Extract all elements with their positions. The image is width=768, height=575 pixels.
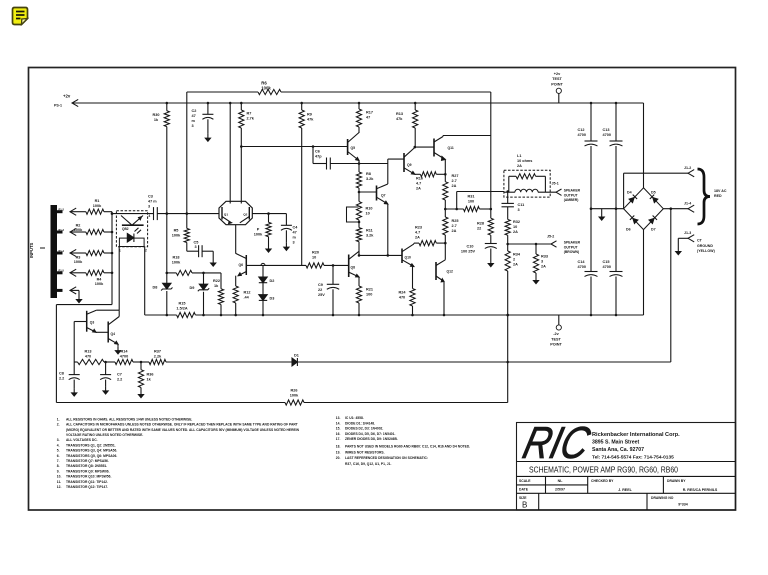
svg-text:14.: 14. bbox=[336, 421, 341, 425]
svg-text:R20: R20 bbox=[312, 251, 319, 255]
svg-text:470: 470 bbox=[85, 355, 91, 359]
transistor Q9 bbox=[403, 153, 405, 172]
test point +2v bbox=[556, 88, 561, 93]
wire R34 down to bottom return bbox=[507, 271, 509, 403]
ground under C10 bbox=[490, 259, 492, 264]
svg-text:2: 2 bbox=[513, 258, 515, 262]
capacitor C12 4700 bbox=[590, 102, 593, 105]
pin J5-1 speaker output amber bbox=[556, 189, 562, 192]
capacitor C5 bbox=[186, 243, 188, 252]
note icon bbox=[13, 8, 28, 25]
capacitor C13 4700 bbox=[615, 102, 618, 105]
svg-text:SCHEMATIC, POWER AMP RG90, RG6: SCHEMATIC, POWER AMP RG90, RG60, RB60 bbox=[529, 465, 678, 474]
svg-text:3: 3 bbox=[293, 241, 295, 245]
svg-text:ALL CAPACITORS IN MICROFARADS: ALL CAPACITORS IN MICROFARADS UNLESS NOT… bbox=[66, 423, 298, 427]
pin J5-2 speaker output brown bbox=[507, 235, 509, 251]
svg-text:C6: C6 bbox=[315, 150, 320, 154]
test point -2v bbox=[558, 315, 560, 325]
wire Q10 emitter down bbox=[413, 266, 414, 268]
svg-text:100k: 100k bbox=[95, 282, 104, 286]
svg-text:C2: C2 bbox=[192, 109, 197, 113]
resistor R10 10 with trimmer loop bbox=[356, 202, 361, 221]
wire Q5 base bbox=[241, 146, 347, 148]
capacitor C14 4700 bbox=[590, 209, 592, 272]
resistor R1 100k input bbox=[70, 208, 76, 215]
svg-text:20.: 20. bbox=[336, 456, 341, 460]
svg-text:R33: R33 bbox=[541, 255, 548, 259]
svg-text:16.: 16. bbox=[336, 432, 341, 436]
optocoupler phototransistor bbox=[121, 216, 132, 226]
wire bridge to bottom return bbox=[670, 209, 672, 362]
svg-text:TRANSISTOR Q12: TIP147.: TRANSISTOR Q12: TIP147. bbox=[66, 485, 108, 489]
svg-text:C3: C3 bbox=[148, 195, 153, 199]
svg-text:100: 100 bbox=[468, 200, 474, 204]
svg-text:C10: C10 bbox=[467, 245, 474, 249]
transistor Q6 bbox=[245, 255, 247, 275]
connector P1 input bracket bbox=[51, 205, 58, 298]
svg-text:18V AC: 18V AC bbox=[714, 189, 727, 193]
svg-text:D2: D2 bbox=[270, 279, 275, 283]
wire feedback column bbox=[166, 127, 168, 273]
resistor R11 3.2k bbox=[356, 228, 361, 242]
svg-text:POINT: POINT bbox=[550, 343, 562, 347]
pin PS-1 arrow bbox=[72, 99, 78, 106]
wire Q11 collector to rail bbox=[442, 136, 444, 137]
svg-text:2A: 2A bbox=[416, 187, 421, 191]
diode D7 bbox=[648, 215, 657, 224]
svg-text:SPEAKER: SPEAKER bbox=[564, 241, 581, 245]
svg-text:C9: C9 bbox=[318, 283, 323, 287]
resistor R31 100 bbox=[445, 208, 463, 210]
wire Q3 base bbox=[74, 321, 87, 323]
resistor R14 4700 bbox=[115, 359, 133, 364]
bridge rectifier D4 D5 D6 D7 bbox=[624, 188, 664, 230]
svg-text:1.: 1. bbox=[57, 417, 60, 421]
transistor Q8 bbox=[348, 255, 350, 278]
wire opto pin2 down to neg bus bbox=[144, 247, 146, 316]
resistor R27 2.7 2A bbox=[443, 182, 448, 200]
wire rail A left drop bbox=[186, 92, 188, 228]
wire Q7 collector up bbox=[387, 164, 389, 185]
svg-text:R2: R2 bbox=[76, 224, 81, 228]
svg-text:22: 22 bbox=[477, 227, 481, 231]
svg-text:OUTPUT: OUTPUT bbox=[564, 193, 579, 197]
svg-text:R16: R16 bbox=[416, 177, 423, 181]
svg-text:47: 47 bbox=[366, 116, 370, 120]
wire output node bbox=[444, 200, 446, 217]
resistor R33 3 2A bbox=[535, 244, 537, 254]
svg-text:10: 10 bbox=[366, 212, 370, 216]
svg-text:R32: R32 bbox=[513, 220, 520, 224]
svg-text:3: 3 bbox=[192, 124, 194, 128]
svg-text:R25: R25 bbox=[452, 219, 459, 223]
svg-text:DIODE D1: 1N4148.: DIODE D1: 1N4148. bbox=[345, 421, 375, 425]
resistor R22 1k bbox=[220, 273, 222, 289]
svg-text:R23: R23 bbox=[415, 226, 422, 230]
svg-text:9.: 9. bbox=[57, 469, 60, 473]
svg-text:2A: 2A bbox=[415, 236, 420, 240]
svg-text:3.2k: 3.2k bbox=[366, 234, 374, 238]
svg-text:POINT: POINT bbox=[551, 82, 563, 86]
svg-text:R24: R24 bbox=[399, 291, 407, 295]
resistor R4 100k input bbox=[70, 269, 76, 276]
transistor Q11 bbox=[433, 139, 435, 157]
svg-text:Q10: Q10 bbox=[405, 256, 412, 260]
svg-text:R13: R13 bbox=[85, 350, 92, 354]
wire negative bus bbox=[145, 314, 177, 316]
svg-text:47 m: 47 m bbox=[148, 200, 157, 204]
svg-text:100k: 100k bbox=[172, 261, 181, 265]
svg-text:J5-2: J5-2 bbox=[547, 235, 554, 239]
diode D5 bbox=[650, 194, 659, 203]
svg-text:R17: R17 bbox=[366, 111, 373, 115]
svg-text:2.7k: 2.7k bbox=[247, 117, 255, 121]
ground under Q4 emitter bbox=[117, 344, 119, 346]
wire rail B drop to bridge bbox=[643, 103, 645, 188]
svg-text:4700: 4700 bbox=[578, 133, 586, 137]
transistor Q7 bbox=[376, 186, 378, 201]
svg-text:R37, C16, D9, Q12, U1, P1, J1.: R37, C16, D9, Q12, U1, P1, J1. bbox=[345, 462, 391, 466]
wire Q12 collector down bbox=[443, 282, 445, 316]
svg-text:47k: 47k bbox=[307, 118, 314, 122]
ground after C5 bbox=[202, 250, 213, 252]
resistor R12 .44 bbox=[233, 286, 238, 303]
svg-text:100k: 100k bbox=[290, 394, 299, 398]
resistor R26 100k bbox=[285, 400, 304, 405]
svg-text:6.: 6. bbox=[57, 454, 60, 458]
svg-text:P1-2: P1-2 bbox=[59, 208, 65, 212]
svg-text:100: 100 bbox=[366, 293, 372, 297]
svg-text:Q8: Q8 bbox=[351, 266, 356, 270]
svg-text:4700: 4700 bbox=[603, 133, 611, 137]
svg-text:DRAWN BY: DRAWN BY bbox=[667, 479, 686, 483]
svg-text:DRAWING NO: DRAWING NO bbox=[651, 496, 674, 500]
svg-text:R7: R7 bbox=[247, 112, 252, 116]
svg-text:-2v: -2v bbox=[553, 332, 559, 336]
svg-text:R10: R10 bbox=[366, 207, 373, 211]
svg-text:3: 3 bbox=[541, 260, 543, 264]
input ground pin bbox=[70, 287, 76, 294]
wire Q8 emitter bbox=[358, 277, 360, 286]
svg-text:9*334: 9*334 bbox=[678, 503, 687, 507]
zener diode D9 bbox=[203, 273, 205, 284]
inductor L1 coil bbox=[504, 191, 515, 193]
resistor R34 2 2A bbox=[505, 251, 510, 271]
svg-text:D9: D9 bbox=[190, 286, 195, 290]
svg-text:P1-3: P1-3 bbox=[59, 228, 65, 232]
wire input bus bbox=[111, 212, 113, 305]
capacitor C10 100 25V bbox=[490, 235, 492, 243]
zener diode D8 bbox=[166, 273, 168, 283]
svg-text:100 25V: 100 25V bbox=[461, 250, 476, 254]
wire output to L1 bbox=[456, 192, 458, 210]
svg-text:2A: 2A bbox=[541, 265, 546, 269]
svg-text:R1: R1 bbox=[95, 199, 100, 203]
wire Q10 base node bbox=[359, 254, 402, 256]
svg-text:47: 47 bbox=[293, 231, 297, 235]
optocoupler U2 dashed box bbox=[116, 211, 147, 247]
svg-text:TRANSISTORS Q5, Q6: MPSA06.: TRANSISTORS Q5, Q6: MPSA06. bbox=[66, 454, 117, 458]
svg-text:J. REEL: J. REEL bbox=[618, 488, 632, 492]
svg-text:4.7: 4.7 bbox=[416, 182, 421, 186]
svg-text:C7: C7 bbox=[117, 373, 122, 377]
svg-text:2: 2 bbox=[145, 249, 147, 253]
ground under R33 bbox=[535, 276, 537, 281]
svg-text:Tel: 714-545-5574 Fax: 714-7: Tel: 714-545-5574 Fax: 714-754-0135 bbox=[592, 455, 674, 461]
svg-text:INPUTS: INPUTS bbox=[29, 242, 34, 258]
svg-text:TRANSISTOR Q9: MPSW06.: TRANSISTOR Q9: MPSW06. bbox=[66, 469, 110, 473]
svg-text:DATE: DATE bbox=[519, 488, 529, 492]
transistor pair Q1 Q2 bbox=[219, 201, 252, 224]
resistor R32 10 2A bbox=[505, 219, 510, 235]
svg-text:Q2: Q2 bbox=[243, 212, 247, 216]
wire R13 to Q11 base node bbox=[414, 128, 416, 147]
svg-text:100k: 100k bbox=[74, 260, 83, 264]
svg-text:DIODES D4, D5, D6, D7: 1N5401.: DIODES D4, D5, D6, D7: 1N5401. bbox=[345, 432, 395, 436]
svg-text:D1: D1 bbox=[294, 354, 299, 358]
svg-text:J1-2: J1-2 bbox=[684, 166, 691, 170]
capacitor C3 bbox=[153, 207, 155, 220]
svg-text:R3: R3 bbox=[76, 256, 81, 260]
svg-text:4700: 4700 bbox=[120, 355, 128, 359]
svg-text:10 ohms: 10 ohms bbox=[517, 159, 532, 163]
diode D6 bbox=[630, 215, 639, 224]
svg-text:47k: 47k bbox=[396, 117, 403, 121]
capacitor C6 47p bbox=[312, 147, 314, 164]
svg-text:100k: 100k bbox=[261, 86, 271, 91]
pin J1-3 CT ground yellow bbox=[678, 237, 688, 239]
svg-text:Santa Ana, Ca. 92707: Santa Ana, Ca. 92707 bbox=[592, 447, 644, 453]
svg-text:Q7: Q7 bbox=[381, 194, 386, 198]
svg-text:100k: 100k bbox=[74, 228, 83, 232]
svg-text:C8: C8 bbox=[59, 372, 64, 376]
capacitor C7 2.2 bbox=[104, 361, 107, 364]
svg-text:C14: C14 bbox=[578, 260, 586, 264]
title block bbox=[517, 423, 736, 511]
wire Q9 base tap bbox=[388, 158, 404, 160]
svg-text:1.5/2A: 1.5/2A bbox=[176, 307, 187, 311]
svg-text:IC U1: 4558.: IC U1: 4558. bbox=[345, 416, 364, 420]
wire rail B (+V supply rail) bbox=[72, 102, 644, 104]
wire ground tie line bbox=[591, 208, 624, 210]
svg-text:47p: 47p bbox=[315, 155, 322, 159]
svg-text:4: 4 bbox=[149, 214, 151, 218]
capacitor C15 4700 bbox=[615, 209, 617, 272]
svg-text:2.2: 2.2 bbox=[59, 377, 64, 381]
wire R9 down to Q8 base node bbox=[301, 128, 303, 265]
svg-text:GROUND: GROUND bbox=[697, 244, 713, 248]
svg-text:13.: 13. bbox=[336, 416, 341, 420]
svg-text:D8: D8 bbox=[153, 286, 158, 290]
optocoupler LED bbox=[127, 234, 134, 243]
svg-text:3: 3 bbox=[195, 245, 197, 249]
wire Q5 emitter node bbox=[358, 162, 361, 165]
svg-text:R9: R9 bbox=[307, 113, 312, 117]
svg-text:TRANSISTORS Q1, Q2: 2N5551.: TRANSISTORS Q1, Q2: 2N5551. bbox=[66, 443, 116, 447]
resistor R30 1k bbox=[166, 102, 169, 105]
wire Q7 emitter down bbox=[387, 204, 389, 255]
svg-text:Q9: Q9 bbox=[407, 163, 412, 167]
wire Q1 collector to rail B bbox=[229, 102, 232, 105]
optocoupler inner box bbox=[119, 238, 144, 246]
transistor Q4 bbox=[96, 331, 108, 333]
svg-text:D3: D3 bbox=[270, 297, 275, 301]
svg-text:Q1: Q1 bbox=[224, 212, 228, 216]
svg-text:TRANSISTORS Q3, Q4: MPSA56.: TRANSISTORS Q3, Q4: MPSA56. bbox=[66, 449, 117, 453]
svg-text:R5: R5 bbox=[174, 229, 179, 233]
wire Q6 base node bbox=[246, 264, 306, 266]
svg-text:(YELLOW): (YELLOW) bbox=[697, 249, 716, 253]
svg-text:470: 470 bbox=[399, 296, 405, 300]
resistor R21 100 bbox=[356, 286, 361, 303]
svg-text:2A: 2A bbox=[452, 184, 457, 188]
svg-text:R18: R18 bbox=[173, 256, 180, 260]
svg-text:47: 47 bbox=[192, 114, 196, 118]
resistor R24 470 bbox=[410, 289, 415, 307]
svg-text:R28: R28 bbox=[477, 222, 484, 226]
resistor R19 100k (P) bbox=[268, 214, 270, 223]
svg-text:2.7: 2.7 bbox=[452, 224, 457, 228]
capacitor C4 bbox=[285, 214, 287, 226]
svg-text:SIZE: SIZE bbox=[519, 496, 527, 500]
capacitor C8 2.2 bbox=[73, 362, 75, 375]
svg-text:WIRES NOT RESISTORS.: WIRES NOT RESISTORS. bbox=[345, 451, 385, 455]
wire pair tail bbox=[235, 225, 237, 254]
wire rail A right drop bbox=[490, 92, 492, 218]
svg-text:Q11: Q11 bbox=[448, 146, 454, 150]
svg-text:3895 S. Main Street: 3895 S. Main Street bbox=[592, 440, 640, 446]
diode D1 bbox=[292, 358, 297, 366]
resistor R13 47k (bias upper) bbox=[414, 102, 417, 105]
svg-text:2A: 2A bbox=[513, 230, 518, 234]
resistor R37 2.2k bbox=[149, 359, 166, 364]
svg-text:R27: R27 bbox=[452, 174, 459, 178]
pin J1-4 bbox=[663, 208, 688, 210]
svg-text:Q3: Q3 bbox=[90, 321, 95, 325]
svg-text:10: 10 bbox=[513, 225, 517, 229]
svg-text:LAST REFERENCED DESIGNATION ON: LAST REFERENCED DESIGNATION ON SCHEMATIC… bbox=[345, 456, 428, 460]
svg-text:R8: R8 bbox=[366, 172, 371, 176]
svg-text:C12: C12 bbox=[578, 128, 585, 132]
svg-text:PS-1: PS-1 bbox=[54, 104, 62, 108]
svg-text:R21: R21 bbox=[366, 288, 373, 292]
wire feedback line right bbox=[297, 361, 670, 363]
diode D3 bbox=[262, 283, 264, 295]
svg-text:R37: R37 bbox=[154, 350, 161, 354]
svg-text:4.: 4. bbox=[57, 443, 60, 447]
svg-text:4.7: 4.7 bbox=[415, 231, 420, 235]
resistor R5 100k bbox=[184, 228, 189, 242]
resistor R13b 470 bbox=[74, 361, 77, 363]
svg-text:2.2: 2.2 bbox=[117, 378, 122, 382]
svg-text:22: 22 bbox=[318, 288, 322, 292]
svg-text:(AMBER): (AMBER) bbox=[564, 198, 579, 202]
svg-text:OUTPUT: OUTPUT bbox=[564, 245, 579, 249]
transistor Q10 bbox=[401, 249, 403, 264]
wire R10 to R11 bbox=[358, 220, 360, 228]
resistor R25 2.7 2A bbox=[443, 217, 448, 235]
svg-text:R26: R26 bbox=[291, 389, 298, 393]
svg-text:TRANSISTOR Q11: TIP142.: TRANSISTOR Q11: TIP142. bbox=[66, 480, 108, 484]
svg-text:2.: 2. bbox=[57, 423, 60, 427]
svg-text:NL: NL bbox=[558, 479, 564, 483]
wire R11 to Q8 collector bbox=[358, 242, 360, 256]
svg-text:CHECKED BY: CHECKED BY bbox=[591, 479, 614, 483]
resistor R7 2.7k bbox=[240, 102, 243, 105]
svg-text:QB2: QB2 bbox=[122, 227, 129, 231]
svg-text:Rickenbacker International Cor: Rickenbacker International Corp. bbox=[592, 432, 680, 438]
svg-text:R12: R12 bbox=[244, 291, 251, 295]
wire bias node bbox=[166, 272, 169, 275]
svg-text:ALL RESISTORS IN OHMS. ALL RES: ALL RESISTORS IN OHMS. ALL RESISTORS 1/4… bbox=[66, 417, 192, 421]
svg-text:R15: R15 bbox=[179, 302, 186, 306]
svg-text:2A: 2A bbox=[517, 164, 522, 168]
svg-text:100k: 100k bbox=[93, 204, 102, 208]
wire Q6 emitter down bbox=[235, 276, 237, 286]
wire C3 to Q1 base bbox=[157, 213, 219, 215]
resistor R6 100k on rail A bbox=[258, 89, 281, 94]
svg-text:TRANSISTOR Q10: MPSW56.: TRANSISTOR Q10: MPSW56. bbox=[66, 475, 111, 479]
ground under R19 bbox=[268, 245, 270, 250]
svg-text:3.: 3. bbox=[57, 438, 60, 442]
svg-text:J1-4: J1-4 bbox=[684, 202, 691, 206]
wire Q2 base node bbox=[252, 213, 286, 215]
svg-text:B: B bbox=[522, 501, 527, 510]
svg-text:8.: 8. bbox=[57, 464, 60, 468]
wire Q11 emitter node bbox=[444, 160, 446, 182]
svg-text:2.7: 2.7 bbox=[452, 179, 457, 183]
transistor Q12 bbox=[435, 262, 437, 280]
ground under C2 bbox=[207, 134, 209, 139]
capacitor C11 3 bbox=[506, 190, 509, 193]
pin J1-2 bbox=[624, 172, 688, 174]
svg-text:3: 3 bbox=[518, 208, 520, 212]
svg-text:RIC: RIC bbox=[518, 418, 595, 468]
svg-text:C11: C11 bbox=[518, 203, 525, 207]
svg-text:17.: 17. bbox=[336, 437, 341, 441]
svg-text:R11: R11 bbox=[366, 229, 373, 233]
svg-text:2A: 2A bbox=[452, 229, 457, 233]
resistor R23 4.7 2A bbox=[413, 242, 415, 245]
transistor Q5 bbox=[358, 127, 360, 133]
resistor R3 100k input bbox=[70, 249, 76, 256]
wire feedback line bbox=[166, 361, 292, 363]
svg-text:SPEAKER: SPEAKER bbox=[564, 189, 581, 193]
svg-text:5.: 5. bbox=[57, 449, 60, 453]
inductor L1 dashed box bbox=[504, 170, 550, 197]
svg-text:R36: R36 bbox=[147, 373, 154, 377]
svg-text:DIODES D2, D3: 1N4002.: DIODES D2, D3: 1N4002. bbox=[345, 427, 383, 431]
svg-text:3: 3 bbox=[148, 205, 150, 209]
svg-text:D6: D6 bbox=[626, 228, 631, 232]
ground under C7 bbox=[105, 386, 107, 391]
wire rail A (top +rail) bbox=[187, 91, 258, 93]
svg-text:7.: 7. bbox=[57, 459, 60, 463]
resistor R36 1k bbox=[140, 362, 142, 370]
svg-text:3.2k: 3.2k bbox=[366, 177, 374, 181]
svg-text:2.2k: 2.2k bbox=[154, 355, 162, 359]
svg-text:P1-4: P1-4 bbox=[59, 249, 65, 253]
svg-text:.44: .44 bbox=[244, 296, 250, 300]
wire input return bbox=[56, 304, 112, 306]
svg-text:+2v: +2v bbox=[63, 94, 71, 99]
svg-text:(BROWN): (BROWN) bbox=[564, 250, 579, 254]
capacitor C2 bbox=[207, 102, 210, 105]
svg-text:R. RES/CA PERNILS: R. RES/CA PERNILS bbox=[683, 488, 718, 492]
wire Q12 emitter up bbox=[444, 243, 446, 260]
svg-text:C5: C5 bbox=[194, 241, 199, 245]
svg-text:TEST: TEST bbox=[551, 337, 561, 341]
